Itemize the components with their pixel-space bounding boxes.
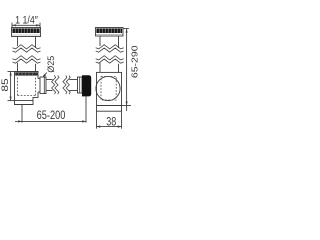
right valve body	[97, 72, 122, 105]
valve bonnet circle	[96, 76, 120, 100]
valve flange ribs	[78, 77, 83, 93]
horizontal pipe right segment	[69, 80, 77, 91]
svg-text:65-290: 65-290	[130, 45, 140, 78]
left riser pipe upper segment	[18, 37, 36, 49]
left valve body outline	[15, 72, 39, 101]
outlet connector stub	[38, 79, 40, 93]
arrowheads 65-290	[126, 29, 128, 106]
svg-text:65-200: 65-200	[37, 109, 66, 122]
left riser pipe lower segment	[18, 63, 36, 72]
dimension 65-200 lines	[15, 96, 86, 122]
arrowheads 1 1/4"	[12, 24, 40, 26]
left body hidden bore dashed	[18, 78, 36, 96]
outlet nut	[40, 77, 46, 94]
right wall connection fitting body	[96, 28, 124, 37]
leader arrow diameter 25	[43, 73, 46, 77]
svg-text:Ø25: Ø25	[46, 56, 56, 73]
left body hex band	[15, 72, 37, 75]
dimension 65-290 extension ticks	[122, 29, 132, 111]
horizontal pipe break 2	[63, 76, 67, 95]
right body hidden lines dashed	[101, 77, 116, 101]
arrowheads 65-200	[18, 120, 86, 122]
right pipe break 1	[96, 45, 124, 49]
svg-text:85: 85	[0, 78, 10, 91]
left fitting thread hatch	[12, 28, 39, 33]
right riser pipe lower segment	[100, 63, 119, 72]
right fitting thread hatch	[96, 28, 122, 33]
left pipe break 1	[13, 45, 41, 49]
dimension line 1 1/4"	[12, 23, 40, 28]
left pipe break 2	[13, 56, 41, 60]
dimension 38 lines	[97, 111, 122, 128]
valve black union nut	[82, 75, 91, 96]
outlet pipe stub	[46, 80, 53, 91]
arrowheads 85	[10, 72, 12, 101]
right body bottom cap	[97, 106, 122, 112]
left body bottom cap	[15, 101, 34, 105]
dimension 85 line	[8, 72, 15, 101]
right pipe break 2	[96, 56, 124, 60]
horizontal pipe break 1	[52, 76, 56, 95]
right riser pipe upper segment	[100, 36, 119, 48]
left wall connection fitting body	[12, 28, 41, 37]
arrowheads 38	[97, 125, 122, 127]
